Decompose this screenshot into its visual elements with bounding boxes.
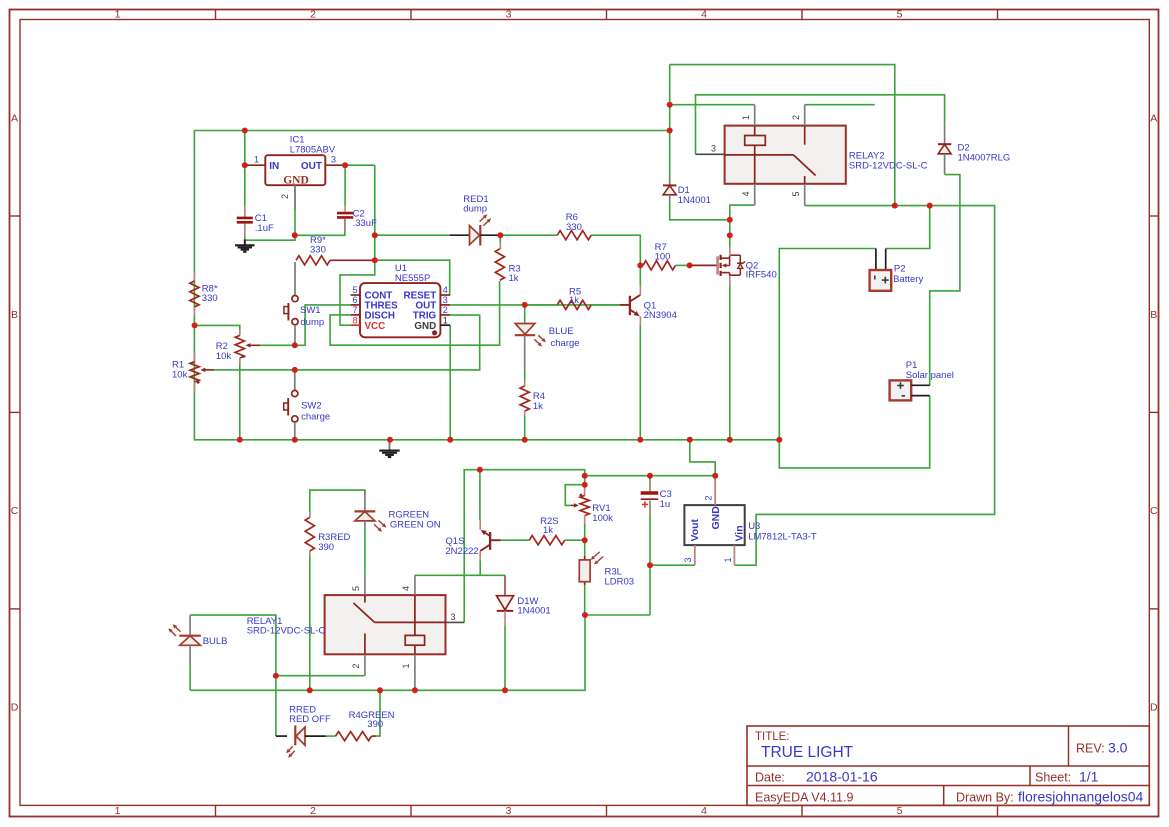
MOSFET Q2 IRF540 — [716, 256, 719, 274]
svg-text:8: 8 — [352, 315, 357, 325]
wire battery minus to bus and P1 minus loop — [779, 249, 929, 468]
svg-text:C: C — [1150, 505, 1158, 517]
svg-text:TRUE LIGHT: TRUE LIGHT — [761, 744, 854, 761]
wire OUT node to C2/R9 column — [345, 164, 375, 166]
potentiometer R1 10k — [194, 352, 196, 362]
junction dots — [242, 128, 248, 134]
svg-text:3: 3 — [683, 558, 693, 563]
wire IC1 pin2 to ground node — [294, 185, 296, 235]
svg-text:4: 4 — [443, 285, 448, 295]
svg-text:Vin: Vin — [734, 525, 746, 541]
svg-text:3: 3 — [443, 295, 448, 305]
svg-text:4: 4 — [701, 9, 707, 21]
wire relay2 pin5 bus to right side and U3 Vin — [734, 206, 994, 566]
wire R2 column — [195, 325, 240, 335]
svg-text:DISCH: DISCH — [365, 311, 395, 322]
svg-text:.33uF: .33uF — [353, 218, 377, 229]
resistor R8* 330 — [193, 272, 195, 281]
svg-text:5: 5 — [791, 191, 801, 196]
timer U1 NE555P — [360, 283, 440, 337]
wire R6 to Q1 collector column — [591, 235, 640, 285]
svg-text:2: 2 — [791, 115, 801, 120]
svg-text:1: 1 — [443, 315, 448, 325]
svg-text:1k: 1k — [569, 295, 579, 306]
svg-text:7: 7 — [352, 305, 357, 315]
svg-text:390: 390 — [367, 719, 383, 730]
wire R7 mid segment — [675, 264, 689, 266]
svg-text:5: 5 — [351, 586, 361, 591]
wire main left column and ground bus — [194, 131, 779, 440]
wire x375 column to VCC pin8 — [340, 165, 375, 325]
wire battery plus to relay bus — [886, 206, 930, 249]
svg-text:BULB: BULB — [203, 636, 228, 647]
svg-text:5: 5 — [352, 285, 357, 295]
svg-text:B: B — [1150, 309, 1157, 321]
svg-text:1: 1 — [115, 805, 121, 817]
resistor R3 1k — [499, 243, 501, 249]
svg-text:charge: charge — [551, 338, 580, 349]
svg-text:GND: GND — [414, 321, 436, 332]
svg-text:2: 2 — [310, 9, 316, 21]
capacitor C1 — [244, 206, 246, 217]
potentiometer R2 10k — [239, 330, 241, 335]
svg-text:SW2: SW2 — [301, 401, 322, 412]
svg-text:330: 330 — [566, 222, 582, 233]
svg-text:TRIG: TRIG — [413, 311, 437, 322]
svg-text:Solar panel: Solar panel — [906, 370, 954, 381]
svg-text:A: A — [11, 112, 18, 124]
wire BULB column — [189, 665, 191, 691]
wire relay2 pin2 stub — [805, 104, 875, 106]
svg-text:LM7812L-TA3-T: LM7812L-TA3-T — [748, 531, 817, 542]
svg-text:D: D — [11, 701, 19, 713]
svg-text:2: 2 — [704, 495, 714, 500]
svg-text:2: 2 — [351, 663, 361, 668]
svg-text:REV:: REV: — [1076, 742, 1105, 756]
svg-text:dump: dump — [463, 204, 487, 215]
svg-text:390: 390 — [318, 542, 334, 553]
svg-text:LDR03: LDR03 — [605, 576, 635, 587]
svg-text:GND: GND — [283, 174, 309, 186]
wire +12V rail over relay2 to D2 — [696, 95, 945, 155]
svg-text:SRD-12VDC-SL-C: SRD-12VDC-SL-C — [849, 160, 928, 171]
wire D2 bottom to P1 plus — [930, 175, 960, 386]
wire top rail to relay2 area — [670, 65, 895, 206]
svg-text:IN: IN — [269, 161, 279, 172]
title block — [747, 726, 1149, 805]
wire relay2 pin4 — [730, 205, 755, 220]
capacitor C3 1u polarized — [649, 480, 651, 491]
svg-text:1N4001: 1N4001 — [517, 606, 550, 617]
svg-text:VCC: VCC — [365, 321, 386, 332]
ground on main bus — [389, 440, 391, 450]
wire C1 column — [244, 131, 246, 218]
diode D1 1N4001 — [669, 177, 671, 185]
LED RED1 dump — [450, 234, 470, 236]
svg-text:1: 1 — [401, 663, 411, 668]
svg-text:2N2222: 2N2222 — [445, 546, 478, 557]
svg-text:10k: 10k — [216, 351, 232, 362]
svg-text:GND: GND — [710, 506, 722, 530]
potentiometer RV1 100k — [580, 494, 583, 497]
wire RRED to R4GREEN riser — [326, 735, 336, 737]
wire lower bus — [190, 615, 650, 690]
svg-text:dump: dump — [300, 317, 324, 328]
regulator U3 LM7812L-TA3-T — [684, 505, 744, 545]
wire C3 column and Vout node — [649, 476, 651, 492]
svg-text:100: 100 — [655, 252, 671, 263]
regulator IC1 L7805ABV — [265, 155, 325, 185]
diode D1W 1N4001 — [504, 575, 506, 596]
wire row575 relay1 pin4 to D1W — [415, 574, 505, 576]
svg-text:5: 5 — [897, 9, 903, 21]
resistor R4 1k — [524, 381, 526, 386]
wire RV1 top loop — [584, 476, 586, 496]
svg-text:Date:: Date: — [755, 771, 785, 785]
svg-text:SRD-12VDC-SL-C: SRD-12VDC-SL-C — [247, 626, 326, 637]
wire RESET pin4 — [375, 260, 450, 295]
svg-text:4: 4 — [401, 586, 411, 591]
svg-text:3: 3 — [331, 155, 336, 165]
svg-text:BLUE: BLUE — [549, 326, 574, 337]
svg-text:1N4001: 1N4001 — [678, 195, 711, 206]
diode D2 1N4007RLG — [944, 125, 946, 144]
pushbutton SW1 dump — [294, 262, 296, 295]
LED BLUE charge — [515, 324, 535, 335]
svg-text:4: 4 — [741, 191, 751, 196]
wire relay1 pin2 to BULB / RRED column — [276, 675, 365, 677]
svg-text:floresjohnangelos04: floresjohnangelos04 — [1018, 789, 1144, 805]
svg-text:SW1: SW1 — [300, 305, 321, 316]
svg-text:EasyEDA V4.11.9: EasyEDA V4.11.9 — [755, 791, 853, 805]
svg-text:.1uF: .1uF — [255, 223, 274, 234]
svg-text:D: D — [1150, 701, 1158, 713]
transistor Q1 2N3904 — [620, 304, 630, 306]
svg-text:C: C — [11, 505, 19, 517]
svg-text:1k: 1k — [533, 401, 543, 412]
svg-text:1: 1 — [254, 155, 259, 165]
wire D1W bottom — [504, 625, 506, 690]
svg-text:B: B — [11, 309, 18, 321]
resistor R6 330 — [557, 231, 591, 240]
wire gnd rail lower circuit — [464, 470, 715, 623]
wire RED1 row — [375, 234, 450, 236]
svg-text:10k: 10k — [172, 369, 188, 380]
resistor R9* 330 — [296, 256, 330, 265]
svg-text:1: 1 — [115, 9, 121, 21]
svg-text:2018-01-16: 2018-01-16 — [806, 769, 878, 785]
LDR R3L LDR03 — [584, 556, 586, 585]
wire R3 top — [499, 235, 501, 249]
svg-text:RED OFF: RED OFF — [289, 714, 331, 725]
svg-text:charge: charge — [301, 412, 330, 423]
pushbutton SW2 charge — [294, 370, 296, 390]
svg-text:2N3904: 2N3904 — [644, 310, 677, 321]
svg-text:3.0: 3.0 — [1108, 740, 1128, 756]
svg-text:TITLE:: TITLE: — [755, 731, 790, 743]
wire R2S to Q1S base — [501, 539, 530, 541]
svg-text:Sheet:: Sheet: — [1035, 771, 1071, 785]
svg-text:3: 3 — [506, 805, 512, 817]
resistor R2S 1k — [529, 536, 564, 545]
svg-text:3: 3 — [711, 144, 716, 154]
resistor R3RED 390 — [309, 512, 311, 517]
svg-text:330: 330 — [310, 245, 326, 256]
wire Q2 drain/source column — [729, 220, 731, 248]
wire D1 column — [669, 65, 671, 177]
svg-text:1N4007RLG: 1N4007RLG — [958, 152, 1011, 163]
svg-text:Drawn By:: Drawn By: — [956, 791, 1014, 805]
wire THRES pin6 from R2 wiper — [260, 305, 350, 345]
LED BULB — [189, 615, 191, 635]
transistor Q1S 2N2222 — [489, 532, 491, 550]
svg-text:2: 2 — [280, 194, 290, 199]
svg-text:1k: 1k — [543, 525, 553, 536]
connector P2 Battery — [875, 249, 877, 271]
wire R3RED RGREEN top rail — [310, 490, 365, 517]
svg-text:1/1: 1/1 — [1079, 769, 1099, 785]
svg-text:4: 4 — [701, 805, 707, 817]
svg-text:Battery: Battery — [893, 274, 923, 285]
wire relay2 pin1 feed — [670, 104, 755, 106]
wire TRIG pin2 to R1 wiper row — [214, 315, 480, 370]
capacitor C2 — [344, 205, 346, 212]
wire bus feed to lower gnd rail — [690, 440, 715, 476]
wire RV1 bottom / R2S node / R3L — [584, 516, 586, 560]
wire GND pin1 to bus — [449, 325, 451, 440]
svg-text:5: 5 — [897, 805, 903, 817]
wire BLUE LED column — [524, 305, 526, 323]
svg-text:2: 2 — [310, 805, 316, 817]
wire DISCH pin7 to R3 bottom — [330, 281, 500, 345]
svg-text:1: 1 — [723, 558, 733, 563]
svg-text:Vout: Vout — [689, 518, 701, 541]
resistor R7 100 — [640, 264, 643, 266]
svg-text:OUT: OUT — [301, 161, 322, 172]
svg-text:NE555P: NE555P — [395, 273, 430, 284]
LED RRED RED OFF — [276, 735, 287, 737]
svg-text:1u: 1u — [660, 499, 671, 510]
wire Q1S emitter riser — [479, 470, 481, 520]
svg-text:IRF540: IRF540 — [746, 270, 777, 281]
svg-text:330: 330 — [202, 293, 218, 304]
svg-text:3: 3 — [506, 9, 512, 21]
wire Q1S collector to row575 — [479, 560, 481, 575]
relay RELAY2 SRD-12VDC-SL-C — [725, 126, 846, 184]
svg-text:GREEN ON: GREEN ON — [390, 520, 441, 531]
LED RGREEN GREEN ON — [364, 490, 366, 510]
svg-text:A: A — [1150, 112, 1157, 124]
svg-text:6: 6 — [352, 295, 357, 305]
svg-text:1k: 1k — [509, 273, 519, 284]
ground under C1 — [244, 240, 246, 245]
resistor R4GREEN 390 — [336, 732, 372, 741]
wire RGREEN to relay1 pin5 — [364, 529, 366, 575]
svg-text:1: 1 — [741, 115, 751, 120]
svg-text:3: 3 — [451, 612, 456, 622]
wire OUT row pin3 — [450, 304, 620, 306]
svg-text:L7805ABV: L7805ABV — [290, 144, 336, 155]
relay RELAY1 SRD-12VDC-SL-C — [325, 595, 446, 654]
svg-text:100k: 100k — [592, 513, 613, 524]
resistor R5 1k — [557, 300, 591, 309]
svg-text:2: 2 — [443, 305, 448, 315]
connector P1 Solar panel — [890, 380, 912, 400]
